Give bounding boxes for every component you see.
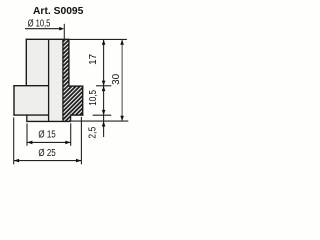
top extension line to right dims (70, 38, 127, 40)
Ø15 dim line (27, 141, 71, 143)
arrowhead of Ø 10,5 leader (59, 27, 64, 31)
leader line for Ø 10,5 (25, 28, 61, 30)
Ø25 dim line (14, 160, 82, 162)
svg-text:30: 30 (111, 73, 122, 84)
Ø15 left extension line (26, 123, 28, 146)
boss right edge (70, 115, 72, 122)
Ø25 right arrow (76, 159, 81, 163)
arrow down bottom of 30 (120, 116, 124, 121)
flange bottom edge left (13, 114, 48, 116)
dim line 30 (121, 40, 123, 121)
upper body left edge (25, 39, 27, 86)
axis line (48, 39, 50, 121)
svg-text:Ø 25: Ø 25 (38, 147, 55, 158)
svg-text:Art. S0095: Art. S0095 (33, 6, 84, 17)
Ø15 left arrow (27, 141, 32, 145)
svg-text:Ø 15: Ø 15 (38, 128, 55, 139)
bore wall line (62, 39, 64, 121)
flange left edge (13, 85, 15, 116)
arrow down at 17/10,5 boundary (102, 81, 106, 86)
flange bottom edge right (71, 114, 84, 116)
Ø25 left arrow (14, 159, 19, 163)
part top edge (26, 38, 70, 40)
Ø15 right extension line (70, 123, 72, 146)
dim line 17/10,5/2,5 (103, 40, 105, 137)
extension line at bottom of 10,5 (93, 114, 112, 116)
step top edge right (68, 85, 83, 87)
boss left edge (26, 115, 28, 122)
svg-text:17: 17 (88, 54, 99, 65)
extension line at 17/10,5 boundary (96, 85, 111, 87)
extension line at bore top (63, 24, 65, 40)
hatched section (L-shape right wall) (63, 39, 83, 121)
flange top edge left (13, 85, 48, 87)
body fill upper cylinder (26, 39, 69, 85)
svg-text:2,5: 2,5 (87, 127, 98, 139)
svg-text:10,5: 10,5 (87, 90, 98, 106)
flange right edge (82, 86, 84, 116)
boss bottom edge (26, 120, 70, 122)
upper body right edge (68, 39, 70, 86)
body fill flange (14, 86, 83, 115)
arrow up at top (17) (102, 40, 106, 45)
arrow up below 2,5 (outside) (102, 121, 106, 126)
Ø25 right extension line (80, 117, 82, 164)
arrow up at 17/10,5 boundary (102, 86, 106, 91)
boss bottom extension to right (71, 120, 129, 122)
body fill bottom boss (27, 115, 71, 121)
arrow down at bottom of 10,5 (102, 110, 106, 115)
Ø25 left extension line (13, 118, 15, 165)
Ø15 right arrow (65, 141, 70, 145)
svg-text:Ø 10,5: Ø 10,5 (28, 17, 51, 28)
arrow up top of 30 (120, 40, 124, 45)
